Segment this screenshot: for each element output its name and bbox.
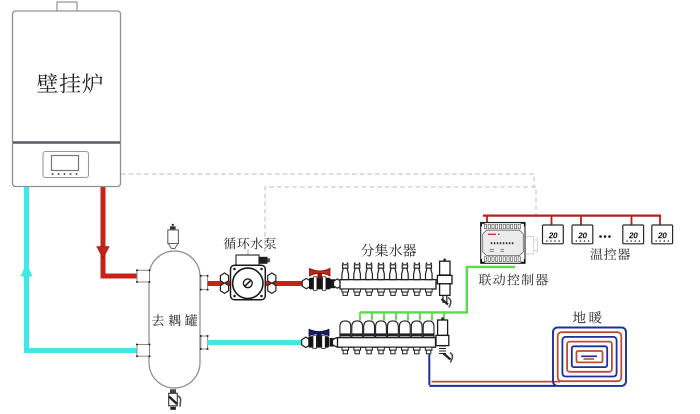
upper manifold end drain valve [443, 295, 447, 303]
boiler display screen [52, 156, 79, 171]
valve red butterfly handle [310, 268, 331, 276]
boiler divider bar [13, 141, 120, 144]
green actuator drop 1 [359, 312, 361, 320]
lower manifold lower nub 7 [413, 347, 420, 350]
boiler buttons [53, 173, 77, 175]
controller red logo text [488, 233, 500, 235]
lower manifold end assembly [441, 317, 444, 320]
valve blue ball valve (return manifold) [302, 337, 310, 347]
coil red ring 5 [577, 351, 603, 362]
pump 循环水泵 body [231, 265, 266, 300]
upper manifold lower nub 8 [426, 289, 433, 292]
green actuator drop 7 [431, 312, 433, 320]
wire red thermostat bus [483, 215, 661, 217]
tank right lower flange (to lower manifold) [201, 336, 208, 349]
pump rotor circle [233, 268, 263, 298]
upper manifold end air vent assembly [443, 259, 446, 262]
linkage controller 联动控制器 body [481, 223, 525, 264]
thermostat 温控器 2 [572, 225, 593, 244]
boiler flue chimney [57, 2, 77, 12]
pump left union nuts [220, 273, 228, 283]
pump flange bolts [233, 268, 236, 271]
tank right upper flange (to pump) [201, 276, 208, 290]
flow arrow up on cyan pipe [21, 263, 33, 277]
lower manifold lower nub 8 [425, 347, 432, 350]
manifold return bar [338, 338, 436, 348]
coil center hook [581, 355, 597, 357]
upper manifold outlet 7 [414, 262, 416, 264]
lower manifold lower nub 1 [342, 347, 349, 350]
upper manifold union fittings [331, 279, 336, 288]
controller small button marks [490, 249, 505, 251]
lower manifold flow meter dome 6 [399, 321, 410, 338]
valve red ball valve (supply manifold) [302, 278, 310, 288]
pump terminal box [236, 255, 259, 266]
wire cyan pipe tank to lower manifold valve [208, 340, 310, 345]
lower manifold flow meter dome 3 [364, 321, 375, 338]
wire red supply pipe from boiler to decoupling tank [101, 186, 139, 276]
pump right union nuts [268, 273, 276, 283]
tank left lower flange (cyan outlet) [137, 345, 150, 357]
wire cyan return pipe from tank to boiler [24, 186, 138, 351]
boiler 壁挂炉 body [13, 11, 121, 187]
green actuator drop 4 [395, 312, 397, 320]
red bus drop to t1 [551, 216, 553, 225]
controller indicator row [491, 242, 493, 244]
wire red pipe tank to pump to manifold valve [208, 281, 341, 286]
wire dashed link pump-to-controller [265, 187, 536, 252]
upper manifold outlet 1 [342, 262, 344, 264]
green actuator drop 2 [371, 312, 373, 320]
decoupling tank 去耦罐 vessel [149, 251, 200, 388]
upper manifold outlet 6 [402, 262, 404, 264]
boiler control panel [43, 152, 89, 178]
wire dashed link boiler-to-controller [121, 174, 534, 187]
wire green actuator bus from controller [360, 267, 515, 313]
valve blue butterfly handle [309, 329, 329, 336]
pump cable connector [259, 257, 268, 264]
lower manifold lower nub 2 [354, 347, 361, 350]
flow arrow down on red pipe [97, 247, 109, 259]
lower manifold flow meter dome 4 [376, 321, 387, 338]
lower manifold union fittings [330, 338, 334, 347]
pump sensor stub line [247, 250, 249, 256]
tank left upper flange (red inlet) [137, 270, 150, 282]
label 联动控制器 [479, 274, 548, 286]
lower manifold lower nub 4 [378, 347, 385, 350]
label 地暖 [573, 311, 602, 324]
upper manifold lower nub 6 [402, 289, 409, 292]
controller corner brackets [481, 223, 525, 263]
upper manifold lower nub 4 [378, 289, 385, 292]
tank top air vent [172, 224, 174, 226]
lower manifold flow meter dome 1 [340, 321, 351, 338]
label 循环水泵 [224, 237, 276, 249]
coil red ring 3 [567, 342, 612, 372]
controller top terminals [484, 224, 486, 229]
pump shaft screw [243, 279, 252, 288]
tank bottom drain valve [170, 389, 176, 393]
upper manifold lower nub 5 [390, 289, 397, 292]
upper manifold lower nub 3 [366, 289, 373, 292]
lower manifold lower nub 5 [390, 347, 397, 350]
label 分集水器 [361, 244, 416, 257]
label 温控器 [591, 248, 631, 260]
upper manifold outlet 4 [378, 262, 380, 264]
controller bottom terminals [484, 257, 486, 262]
thermostat 温控器 4 [652, 225, 673, 244]
lower manifold flow meter dome 5 [388, 321, 399, 338]
lower manifold flow meter dome 7 [411, 321, 422, 338]
red bus drop to controller [486, 216, 488, 222]
controller face panel [483, 230, 524, 255]
upper manifold outlet 8 [426, 262, 428, 264]
ellipsis between thermostats [601, 235, 610, 238]
red bus drop to t4 [659, 216, 661, 225]
coil blue ring 4 [572, 346, 607, 367]
manifold 分集水器 supply bar [340, 280, 436, 289]
wire red supply pipe to floor coil [432, 381, 561, 383]
upper manifold outlet 3 [366, 262, 368, 264]
green actuator drop 8 [443, 312, 445, 320]
green actuator drop 6 [419, 312, 421, 320]
lower manifold lower nub 6 [402, 347, 409, 350]
upper manifold outlet 5 [390, 262, 392, 264]
coil red ring 1 [558, 332, 622, 381]
lower manifold flow meter dome 8 [423, 321, 434, 338]
upper manifold outlet 2 [354, 262, 356, 264]
lower manifold lower nub 3 [366, 347, 373, 350]
lower manifold end drain valve [444, 354, 451, 360]
coil blue ring 2 [562, 337, 616, 377]
red bus drop to t2 [580, 216, 582, 225]
upper manifold lower nub 7 [414, 289, 421, 292]
label 壁挂炉 [37, 73, 102, 93]
upper manifold lower nub 2 [354, 289, 361, 292]
lower manifold flow meter dome 2 [352, 321, 363, 338]
label 去耦罐 [152, 314, 197, 326]
wire navy return pipe manifold to floor coil [429, 354, 556, 386]
red bus drop to t3 [631, 216, 633, 225]
controller DIN-clip ghost outline [526, 237, 538, 255]
green actuator drop 5 [407, 312, 409, 320]
thermostat 温控器 1 [543, 225, 564, 244]
thermostat 温控器 3 [623, 225, 644, 244]
floor heating coil 地暖 outer blue ring [553, 328, 626, 386]
upper manifold lower nub 1 [342, 289, 349, 292]
green actuator drop 3 [383, 312, 385, 320]
